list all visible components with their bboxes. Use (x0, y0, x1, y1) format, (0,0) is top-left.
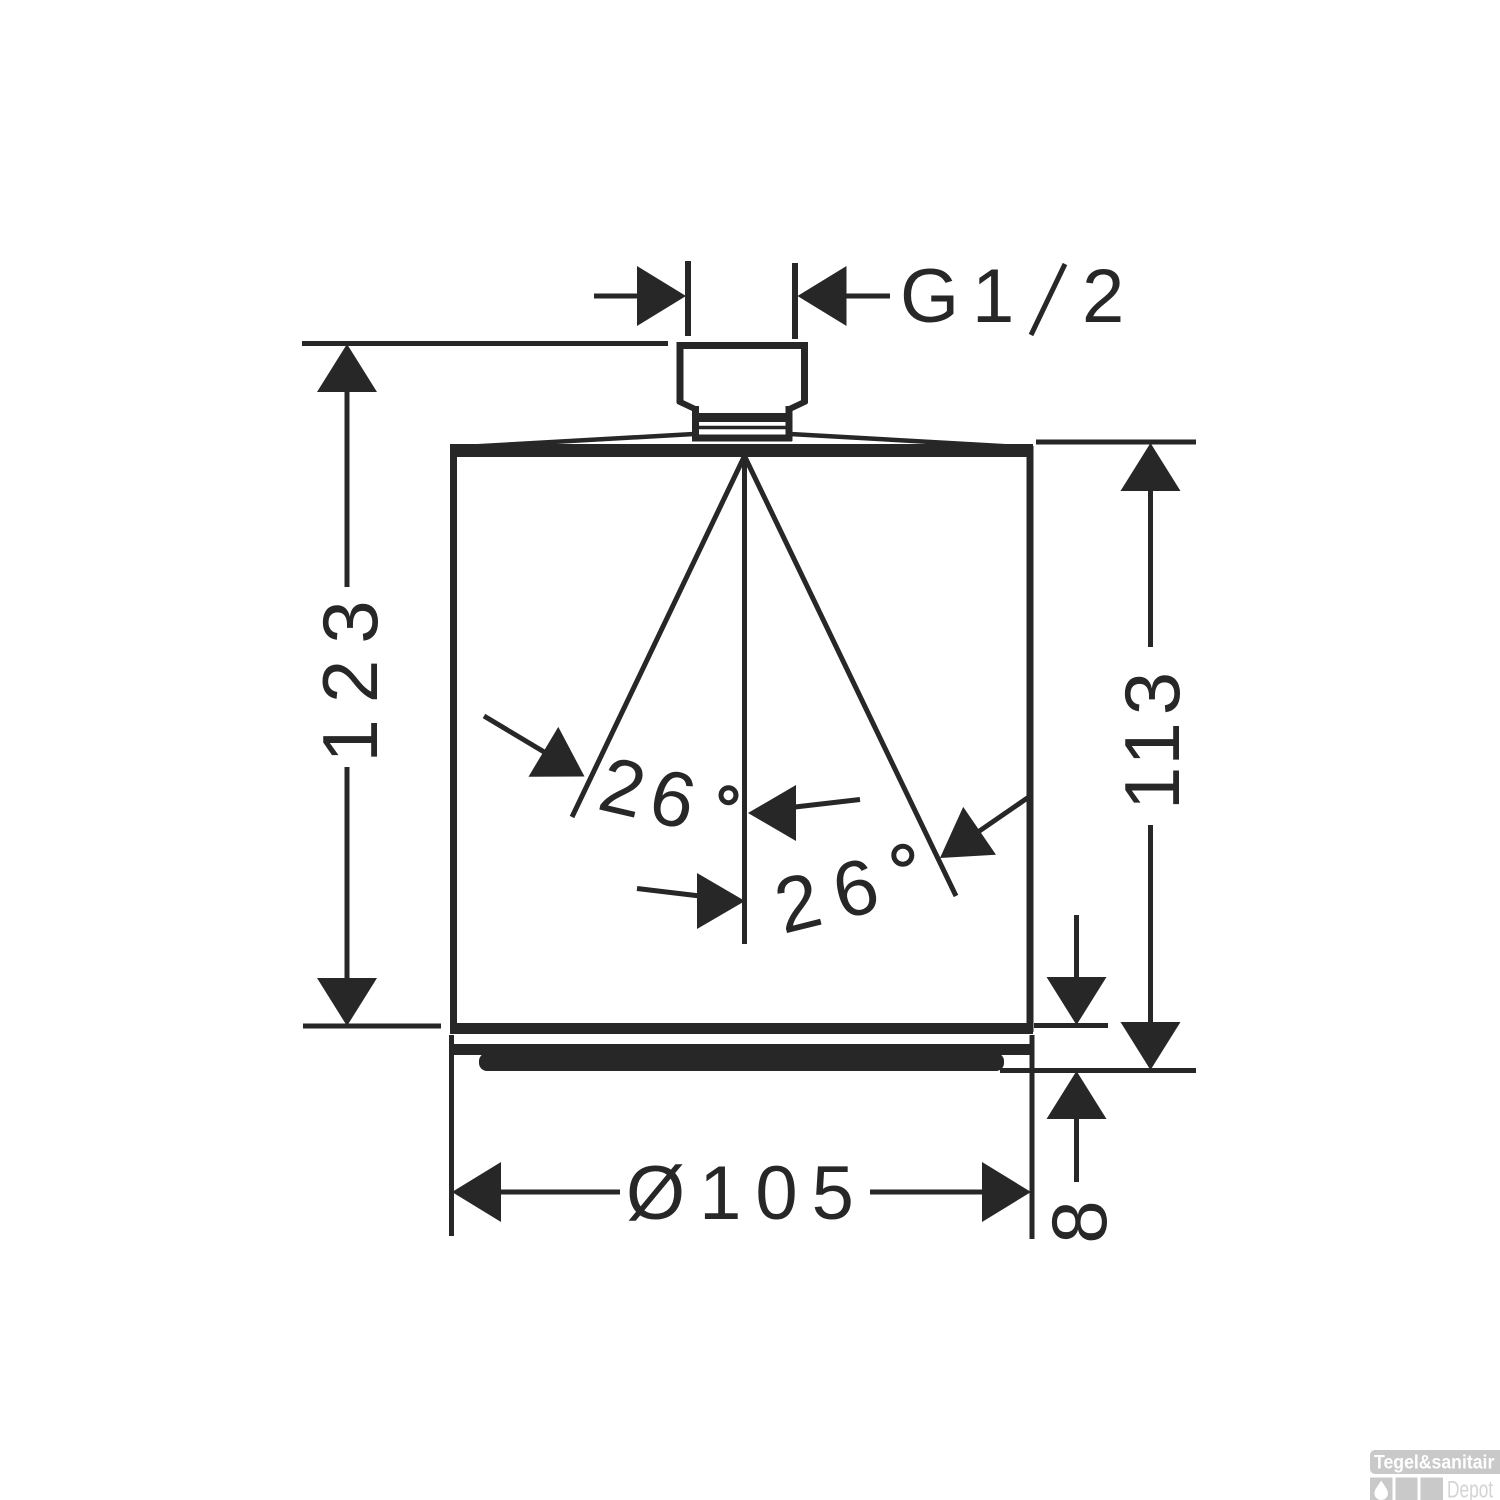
113 top arrowhead (1121, 443, 1181, 491)
123 dim line lower segment (345, 767, 350, 980)
fitting right chamfer (789, 401, 807, 410)
fitting right side (801, 342, 808, 403)
fitting left chamfer (678, 401, 696, 410)
watermark square 2 (1396, 1478, 1418, 1500)
123 bottom extension line (303, 1024, 441, 1029)
113 dim line lower segment (1148, 825, 1153, 1024)
body left edge (450, 446, 457, 1032)
fitting collar right side (786, 406, 793, 441)
fitting collar left side (692, 406, 699, 441)
center right-pointing arrow tail (637, 889, 700, 897)
8 lower stem (1074, 1119, 1079, 1182)
123 bottom arrowhead (317, 978, 377, 1026)
spray face disc (479, 1053, 1004, 1071)
svg-text:G: G (900, 254, 959, 339)
G1/2 right tick (792, 263, 798, 339)
svg-text:113: 113 (1108, 665, 1196, 810)
fitting left side (677, 342, 684, 403)
svg-text:8: 8 (1035, 1200, 1123, 1243)
svg-text:1: 1 (972, 254, 1014, 339)
right pointer tail (978, 796, 1031, 833)
G1/2 left tick (685, 261, 691, 336)
center left-pointing arrow tail (795, 800, 860, 808)
G1/2 right arrowhead (798, 266, 847, 326)
right degree symbol (894, 846, 912, 864)
d105 right arrowhead (982, 1162, 1031, 1222)
svg-text:Ø105: Ø105 (626, 1151, 868, 1236)
svg-text:Depot: Depot (1447, 1477, 1493, 1500)
G1/2 dim line right tail (845, 294, 890, 299)
left pointer tail (484, 716, 545, 753)
123 top extension line (302, 341, 668, 346)
8 upper arrowhead (1047, 977, 1107, 1025)
svg-text:2: 2 (1082, 254, 1124, 339)
d105 dim line left tail (499, 1190, 620, 1195)
right pointer arrowhead (940, 807, 996, 858)
center right-pointing arrowhead (697, 873, 745, 929)
watermark square 3 (1421, 1478, 1444, 1500)
G1/2 left arrowhead (637, 266, 686, 326)
fitting collar upper band (694, 413, 790, 422)
113 bottom arrowhead (1121, 1022, 1181, 1070)
8 lower arrowhead (1047, 1071, 1107, 1119)
body top cone slant left (455, 434, 694, 448)
fitting collar thin line (697, 426, 787, 430)
left 26 deg label (592, 739, 712, 848)
left degree symbol (721, 788, 736, 803)
fitting G1/2 top line (677, 342, 808, 349)
svg-text:Tegel&sanitair: Tegel&sanitair (1374, 1451, 1494, 1473)
watermark Depot text (1447, 1477, 1493, 1500)
spray right 26 deg ray (745, 456, 957, 896)
d105 dim line right tail (870, 1190, 984, 1195)
body right edge (1027, 446, 1034, 1032)
d105 right extension line (1030, 1035, 1035, 1239)
left pointer arrowhead (529, 727, 585, 777)
113 top extension line (1036, 440, 1196, 445)
watermark square 1 (1370, 1478, 1393, 1500)
body top cone slant right (790, 434, 1028, 448)
fitting collar bottom band (692, 435, 792, 442)
113 dim line upper segment (1148, 489, 1153, 647)
right 26 deg label (766, 836, 903, 950)
123 top arrowhead (317, 344, 377, 392)
d105 left arrowhead (452, 1162, 501, 1222)
watermark drop icon (1374, 1481, 1388, 1500)
spray left 26 deg ray (572, 456, 745, 817)
svg-text:123: 123 (306, 584, 394, 762)
watermark banner text (1374, 1451, 1494, 1473)
body top edge band (450, 444, 1033, 457)
center left-pointing arrowhead (748, 785, 796, 841)
face plate rim band (452, 1044, 1031, 1055)
d105 left extension line (449, 1035, 454, 1236)
123 dim line upper segment (345, 390, 350, 587)
G1/2 dim line left tail (594, 294, 640, 299)
8 upper extension line (1034, 1023, 1108, 1028)
body bottom edge band (450, 1023, 1033, 1034)
watermark banner (1370, 1450, 1500, 1474)
113 bottom extension line (1000, 1068, 1196, 1073)
spray center line (742, 456, 747, 944)
8 upper stem (1074, 915, 1079, 979)
